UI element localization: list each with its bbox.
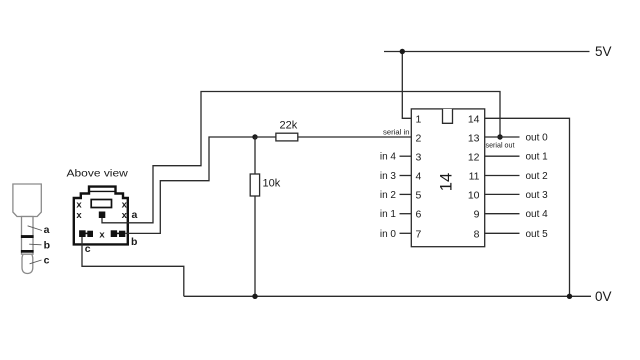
svg-text:a: a <box>132 209 138 221</box>
pin 6 stub <box>400 213 412 215</box>
svg-text:in 0: in 0 <box>380 229 397 240</box>
pin 7 stub <box>400 232 412 234</box>
socket outline (above view) <box>74 187 128 245</box>
svg-text:a: a <box>44 224 50 236</box>
svg-text:22k: 22k <box>280 119 298 131</box>
wire: serial in net (socket b up to 22k junction) <box>125 137 255 233</box>
svg-text:serial in: serial in <box>383 128 410 137</box>
svg-text:c: c <box>44 254 50 266</box>
plug leader b <box>29 243 41 246</box>
svg-text:5: 5 <box>416 190 422 202</box>
junction dot pin14 rail to 0V <box>567 294 572 299</box>
svg-text:in 4: in 4 <box>380 152 397 163</box>
svg-text:1: 1 <box>416 113 422 125</box>
junction dot serial out at pin 13 wire <box>497 134 502 139</box>
svg-text:b: b <box>131 236 137 248</box>
svg-text:2: 2 <box>416 132 422 144</box>
svg-text:in 3: in 3 <box>380 171 397 182</box>
svg-text:14: 14 <box>438 173 456 191</box>
svg-text:serial out: serial out <box>486 141 516 150</box>
pin 3 stub <box>400 155 412 157</box>
junction dot on 5V rail <box>400 49 405 54</box>
svg-text:x: x <box>122 210 128 221</box>
5V rail <box>384 51 590 53</box>
svg-text:out 0: out 0 <box>526 133 549 144</box>
svg-text:8: 8 <box>474 228 480 240</box>
wire: socket c to 0V rail <box>82 237 184 296</box>
svg-text:b: b <box>44 240 50 252</box>
jack plug tip <box>22 254 33 273</box>
svg-text:x: x <box>76 210 82 221</box>
junction dot 10k to 0V <box>252 294 257 299</box>
IC U1 PICAXE-14 body <box>411 109 484 247</box>
svg-text:in 1: in 1 <box>380 209 397 220</box>
socket bottom-right contact pair (b) <box>111 230 117 237</box>
socket tab bottom edge <box>89 190 116 192</box>
svg-text:out 1: out 1 <box>526 152 549 163</box>
svg-text:out 5: out 5 <box>526 229 549 240</box>
socket centre contact square (a) <box>99 212 106 219</box>
jack plug body <box>13 184 41 217</box>
svg-text:out 3: out 3 <box>526 190 549 201</box>
IC pin numbers right 14-8 <box>468 113 480 240</box>
plug leader a <box>28 226 42 231</box>
svg-text:x: x <box>76 200 82 211</box>
pin 11 stub <box>485 175 520 177</box>
jack plug band 2 <box>21 250 34 253</box>
IC notch <box>443 109 453 123</box>
socket x marks <box>76 200 127 241</box>
svg-text:out 2: out 2 <box>526 171 549 182</box>
svg-text:5V: 5V <box>595 44 612 59</box>
svg-text:10: 10 <box>468 190 480 202</box>
svg-text:x: x <box>122 200 128 211</box>
0V rail <box>184 295 591 297</box>
socket inner rectangle <box>91 200 111 208</box>
svg-text:Above view: Above view <box>67 168 129 180</box>
svg-text:12: 12 <box>468 151 480 163</box>
svg-text:c: c <box>85 243 91 255</box>
svg-text:10k: 10k <box>263 178 281 190</box>
IC pin numbers left 1-7 <box>416 113 422 240</box>
svg-text:7: 7 <box>416 228 422 240</box>
svg-text:13: 13 <box>468 132 480 144</box>
svg-text:9: 9 <box>474 209 480 221</box>
jack plug band 1 <box>21 235 34 238</box>
svg-text:in 2: in 2 <box>380 190 397 201</box>
svg-text:out 4: out 4 <box>526 209 549 220</box>
svg-text:4: 4 <box>416 171 422 183</box>
resistor R2 10k <box>254 137 256 174</box>
pin 10 stub <box>485 193 520 195</box>
wire: IC pin 14 to 0V rail <box>485 118 570 296</box>
svg-text:3: 3 <box>416 151 422 163</box>
pin 13 stub to out 0 <box>485 136 520 138</box>
jack plug shaft <box>22 217 34 255</box>
pin 8 stub <box>485 232 520 234</box>
junction dot at 22k/10k node <box>252 134 257 139</box>
svg-text:14: 14 <box>468 113 480 125</box>
pin 12 stub <box>485 155 520 157</box>
plug leader c <box>30 260 42 264</box>
wire: 5V rail down to IC pin 1 <box>402 52 411 119</box>
svg-text:x: x <box>99 229 105 240</box>
wire: serial out net (socket a to IC pin 13) <box>102 92 500 223</box>
svg-text:0V: 0V <box>595 289 612 304</box>
resistor R1 22k <box>255 136 276 138</box>
svg-text:6: 6 <box>416 209 422 221</box>
pin 9 stub <box>485 213 520 215</box>
pin 5 stub <box>400 193 412 195</box>
pin 4 stub <box>400 175 412 177</box>
socket bottom-left contact pair (c) <box>79 230 86 237</box>
svg-text:11: 11 <box>469 171 480 183</box>
